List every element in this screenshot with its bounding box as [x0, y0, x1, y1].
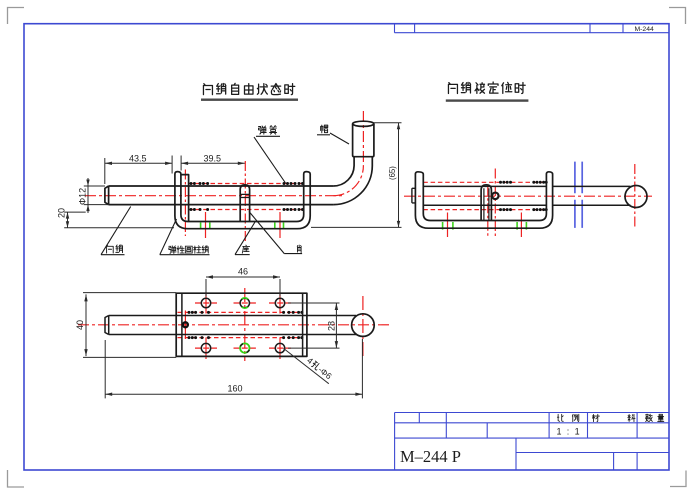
svg-text:M-244: M-244 [635, 26, 654, 33]
svg-text:M–244 P: M–244 P [400, 447, 461, 466]
svg-text:1 : 1: 1 : 1 [557, 427, 582, 437]
svg-text:28: 28 [327, 321, 337, 331]
svg-text:160: 160 [228, 384, 243, 394]
svg-text:39.5: 39.5 [204, 154, 222, 164]
svg-text:Φ12: Φ12 [78, 188, 88, 205]
svg-text:(65): (65) [388, 166, 397, 180]
svg-text:43.5: 43.5 [129, 154, 147, 164]
svg-text:46: 46 [238, 267, 248, 277]
svg-text:20: 20 [57, 208, 67, 218]
svg-text:40: 40 [75, 320, 85, 330]
